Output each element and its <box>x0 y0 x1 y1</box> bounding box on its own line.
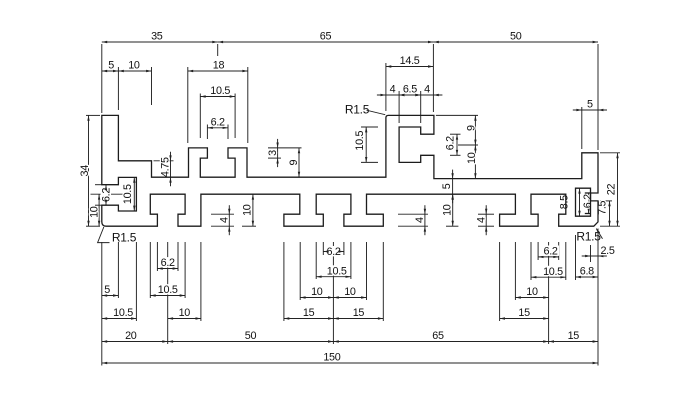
svg-text:6.2: 6.2 <box>444 136 456 150</box>
internal screw channel right <box>576 188 591 216</box>
svg-text:150: 150 <box>323 352 340 364</box>
dim 5 right upstand <box>573 109 607 111</box>
svg-text:10: 10 <box>466 152 478 164</box>
dim 4 boss2 left <box>377 94 408 96</box>
svg-text:10: 10 <box>344 286 356 298</box>
svg-text:15: 15 <box>568 330 580 342</box>
dim 15 chamber-slot135 <box>500 318 549 320</box>
svg-text:10.5: 10.5 <box>158 284 178 296</box>
dim 10.5 boss1 extension lines <box>199 94 201 139</box>
svg-text:15: 15 <box>303 307 315 319</box>
svg-text:4: 4 <box>475 217 487 223</box>
dim 6.2 hook tunnel extension lines <box>95 184 102 186</box>
svg-text:10: 10 <box>88 206 100 218</box>
dim 4.75 step extension line <box>154 160 174 162</box>
svg-text:4: 4 <box>390 84 396 96</box>
svg-text:R1.5: R1.5 <box>112 231 137 245</box>
dim 2.5 wall <box>582 255 607 257</box>
dim 10.5 slot1 cavity <box>150 295 185 297</box>
dim 10.5 hook cavity <box>133 177 135 211</box>
dim 65 top <box>218 41 434 43</box>
dim 5 right upstand extension line <box>581 107 583 149</box>
dim 4 foot B <box>424 205 426 235</box>
svg-text:4.75: 4.75 <box>159 157 171 177</box>
dim 10.5 slot135 cavity <box>531 276 566 278</box>
dim 10 opening2 <box>446 225 458 227</box>
dim 14.5 boss2 <box>386 66 434 68</box>
dim 34 extension lines <box>86 114 100 116</box>
svg-text:50: 50 <box>245 330 257 342</box>
dim 6.2 slot1 throat <box>157 268 178 270</box>
svg-text:50: 50 <box>510 31 522 43</box>
svg-text:6.2: 6.2 <box>161 257 175 269</box>
bottom extension lines middle cluster <box>283 242 285 321</box>
screw channel lips <box>585 192 591 194</box>
svg-text:4: 4 <box>424 84 430 96</box>
svg-text:65: 65 <box>432 330 444 342</box>
dim 15 slot70 right <box>333 318 383 320</box>
dim 9 boss1 depth <box>298 148 300 177</box>
svg-text:5: 5 <box>587 99 593 111</box>
svg-text:15: 15 <box>353 307 365 319</box>
svg-text:9: 9 <box>288 159 300 165</box>
svg-text:3: 3 <box>267 150 279 156</box>
dim 22 right <box>617 153 619 226</box>
svg-text:10: 10 <box>441 204 453 216</box>
bottom extension lines left cluster <box>101 242 103 366</box>
svg-text:5: 5 <box>108 60 114 72</box>
dim 150 overall <box>102 362 598 364</box>
dim 6.2 boss2 throat extension lines <box>450 133 461 135</box>
dim 14.5 extension line <box>385 63 387 111</box>
svg-text:10: 10 <box>128 60 140 72</box>
svg-text:10.5: 10.5 <box>210 85 230 97</box>
dim 15 slot70 left <box>284 318 334 320</box>
dim 50 bottom <box>168 341 334 343</box>
dim 6.2 boss2 throat <box>456 134 458 155</box>
svg-text:6.8: 6.8 <box>580 266 594 278</box>
svg-text:8.5: 8.5 <box>558 195 570 209</box>
svg-text:10.5: 10.5 <box>543 266 563 278</box>
svg-text:R1.5: R1.5 <box>345 103 370 117</box>
dim 6.2 hook <box>105 185 107 206</box>
svg-text:6.2: 6.2 <box>211 116 225 128</box>
svg-text:10.5: 10.5 <box>122 184 134 204</box>
dim 4 chamber foot <box>485 205 487 235</box>
svg-text:6.5: 6.5 <box>403 84 417 96</box>
dim 10.5 boss2 cavity <box>365 127 367 162</box>
svg-text:10: 10 <box>242 204 254 216</box>
svg-text:34: 34 <box>79 165 91 177</box>
svg-text:15: 15 <box>518 307 530 319</box>
dim 50 top <box>433 41 598 43</box>
dim 4 foot B extension lines <box>398 213 428 215</box>
dim 10 slot1-rib <box>168 318 201 320</box>
svg-text:22: 22 <box>605 184 617 196</box>
dim 5 top-left <box>102 70 119 72</box>
dim 6.2 boss1 extension lines <box>206 125 208 140</box>
dim 4.75 step <box>170 152 172 186</box>
bottom extension lines right cluster <box>499 242 501 321</box>
dim 10 left <box>98 194 100 226</box>
dim 3 boss1 throat <box>277 139 279 167</box>
dim 10 slot70 left <box>300 297 333 299</box>
svg-text:10.5: 10.5 <box>327 265 347 277</box>
dim 10 opening2 <box>452 194 454 226</box>
dims 4 / 6.5 / 4 boss2 extension lines <box>398 91 400 123</box>
aluminium extrusion profile cross-section outline <box>102 115 598 226</box>
dim 6.5 boss2 <box>399 94 421 96</box>
dim 6.2 slot70 throat <box>323 251 344 253</box>
svg-text:10: 10 <box>179 307 191 319</box>
dim 20 bottom <box>102 341 168 343</box>
dim 5 hook wall <box>102 295 119 297</box>
svg-text:6.2: 6.2 <box>544 245 558 257</box>
dim 65 bottom <box>333 341 548 343</box>
svg-text:10.5: 10.5 <box>354 131 366 151</box>
dim 10 left extension line <box>91 193 124 195</box>
dim 7.5 extension line <box>599 200 613 202</box>
dim 4 boss2 right <box>412 94 443 96</box>
dim 6.2 screw channel <box>588 193 590 214</box>
dim 4 slot1 throat depth extension lines <box>211 213 234 215</box>
dim 10 rib-slot135 <box>515 297 548 299</box>
dim 22 extension lines <box>600 152 620 154</box>
svg-text:18: 18 <box>213 60 225 72</box>
svg-text:5: 5 <box>104 284 110 296</box>
svg-text:9: 9 <box>466 125 478 131</box>
svg-text:4: 4 <box>219 217 231 223</box>
svg-text:10.5: 10.5 <box>113 307 133 319</box>
dim 8.5 screw channel <box>579 188 581 216</box>
svg-text:20: 20 <box>125 330 137 342</box>
dim 6.2 slot135 throat <box>538 256 559 258</box>
dim 10.5 boss2 cavity extension lines <box>361 126 378 128</box>
dim 6.8 screw channel <box>576 276 599 278</box>
dim 10.5 slot70 cavity <box>316 276 351 278</box>
dim 34 left <box>88 115 90 226</box>
dim 4 slot1 throat <box>228 205 230 235</box>
dim 3 boss1 throat extension lines <box>268 147 302 149</box>
svg-text:4: 4 <box>414 217 426 223</box>
svg-text:14.5: 14.5 <box>400 55 420 67</box>
dim 10 slot70 right <box>333 297 366 299</box>
dim 5/10 top-left extension lines <box>117 67 119 110</box>
dim 10 top-left <box>118 70 151 72</box>
dim 9 boss2 axis <box>474 115 476 145</box>
svg-text:10: 10 <box>311 286 323 298</box>
dim 5 plate <box>452 170 454 204</box>
dim 18 extension lines <box>187 67 189 143</box>
dim 10 opening1 <box>242 225 256 227</box>
svg-text:10: 10 <box>526 286 538 298</box>
svg-text:2.5: 2.5 <box>600 245 614 257</box>
svg-text:35: 35 <box>151 31 163 43</box>
radius leader R1.5 bottom-left <box>98 227 110 243</box>
dim 10.5 hook bottom <box>102 318 137 320</box>
top chain extension lines <box>101 44 103 113</box>
dim 4 chamber foot extension lines <box>478 213 494 215</box>
dim 18 boss1 <box>188 70 248 72</box>
dim 9 / dim 10 boss2 axis extension lines <box>436 114 478 116</box>
dim 10.5 boss1 <box>200 96 235 98</box>
svg-text:65: 65 <box>320 31 332 43</box>
dim 10 boss2 axis-deck <box>474 145 476 179</box>
dim 10 opening1 <box>252 194 254 226</box>
dim 15 bottom <box>549 341 598 343</box>
svg-text:5: 5 <box>441 183 453 189</box>
dim 6.2 boss1 <box>207 127 228 129</box>
dim 7.5 right <box>609 201 611 226</box>
dim 35 top <box>102 41 218 43</box>
